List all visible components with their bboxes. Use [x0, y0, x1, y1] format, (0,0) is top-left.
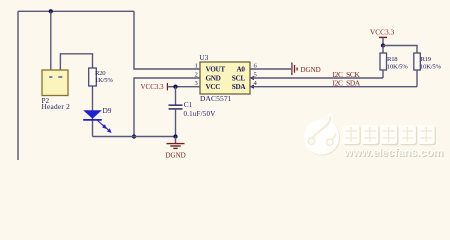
IC U3 DAC5571	[200, 62, 250, 94]
svg-text:1K/5%: 1K/5%	[95, 77, 113, 84]
svg-text:2: 2	[195, 71, 198, 78]
svg-text:SCL: SCL	[232, 74, 246, 82]
svg-text:DAC5571: DAC5571	[200, 94, 232, 103]
pin input arrow SCL	[249, 76, 254, 80]
connector P2	[42, 70, 68, 96]
svg-text:VCC3.3: VCC3.3	[370, 28, 395, 36]
svg-text:1: 1	[195, 62, 198, 69]
resistor R20	[89, 68, 97, 86]
power VCC3.3 (left, bar style)	[141, 83, 168, 91]
svg-text:VCC: VCC	[206, 83, 221, 91]
svg-text:VCC3.3: VCC3.3	[141, 83, 165, 91]
wire VCC3.3 to pin3	[168, 86, 200, 88]
svg-text:10K/5%: 10K/5%	[387, 63, 408, 70]
wire GND pin2 to bottom rail	[134, 78, 200, 137]
power VCC3.3 (top right, bar style)	[370, 28, 395, 45]
svg-text:10K/5%: 10K/5%	[420, 63, 441, 70]
svg-text:Header 2: Header 2	[42, 102, 71, 111]
svg-text:R18: R18	[387, 56, 398, 63]
svg-text:D9: D9	[103, 106, 112, 115]
wire R18 top stem	[382, 46, 384, 54]
wire header pin1 drop	[50, 11, 52, 70]
wire R18 bottom stem	[382, 70, 384, 78]
resistor R18	[380, 53, 387, 70]
watermark chinese characters	[343, 125, 437, 145]
wire C1 top stem	[175, 87, 177, 105]
svg-text:A0: A0	[237, 65, 246, 73]
svg-text:R20: R20	[95, 70, 106, 77]
node junction C1/DGND	[173, 134, 177, 138]
svg-text:SDA: SDA	[232, 83, 247, 91]
node junction top (header pin1)	[49, 9, 53, 13]
svg-text:C1: C1	[184, 101, 193, 109]
svg-text:I2C_SDA: I2C_SDA	[333, 78, 361, 87]
wire R19 bottom stem	[416, 70, 418, 87]
wire pin6 A0	[250, 68, 291, 70]
wire VOUT feed: top wire down to pin1	[134, 11, 200, 69]
node junction VCC/C1	[173, 85, 177, 89]
node junction VCC/R18/R19	[381, 43, 385, 47]
svg-text:www.elecfans.com: www.elecfans.com	[343, 147, 443, 159]
ground DGND (bottom)	[166, 137, 186, 160]
wire header pin2 bridge to R20	[60, 54, 92, 70]
wire left vertical	[17, 11, 19, 160]
watermark logo circle	[304, 117, 340, 156]
wire C1 bottom stem	[175, 109, 177, 137]
svg-text:0.1uF/50V: 0.1uF/50V	[184, 110, 216, 118]
capacitor C1	[169, 105, 183, 109]
wire top horizontal	[18, 10, 134, 12]
svg-text:DGND: DGND	[166, 152, 186, 160]
diode D9 (LED)	[83, 110, 111, 132]
svg-text:R19: R19	[421, 56, 432, 63]
node junction bottom rail / GND	[132, 134, 136, 138]
wire pin5 SCL to R18	[250, 77, 383, 79]
svg-text:U3: U3	[200, 54, 209, 62]
wire pin4 SDA to R19	[250, 86, 417, 88]
wire VCC to R19 top	[383, 46, 417, 54]
ground DGND (right, rotated bars)	[292, 62, 321, 75]
svg-text:DGND: DGND	[301, 66, 321, 74]
wire bottom rail	[93, 136, 176, 138]
resistor R19	[414, 53, 421, 70]
pin input arrow SDA	[249, 85, 254, 89]
wire LED chain vertical	[92, 86, 94, 137]
svg-text:VOUT: VOUT	[206, 65, 226, 73]
svg-text:GND: GND	[206, 74, 221, 82]
